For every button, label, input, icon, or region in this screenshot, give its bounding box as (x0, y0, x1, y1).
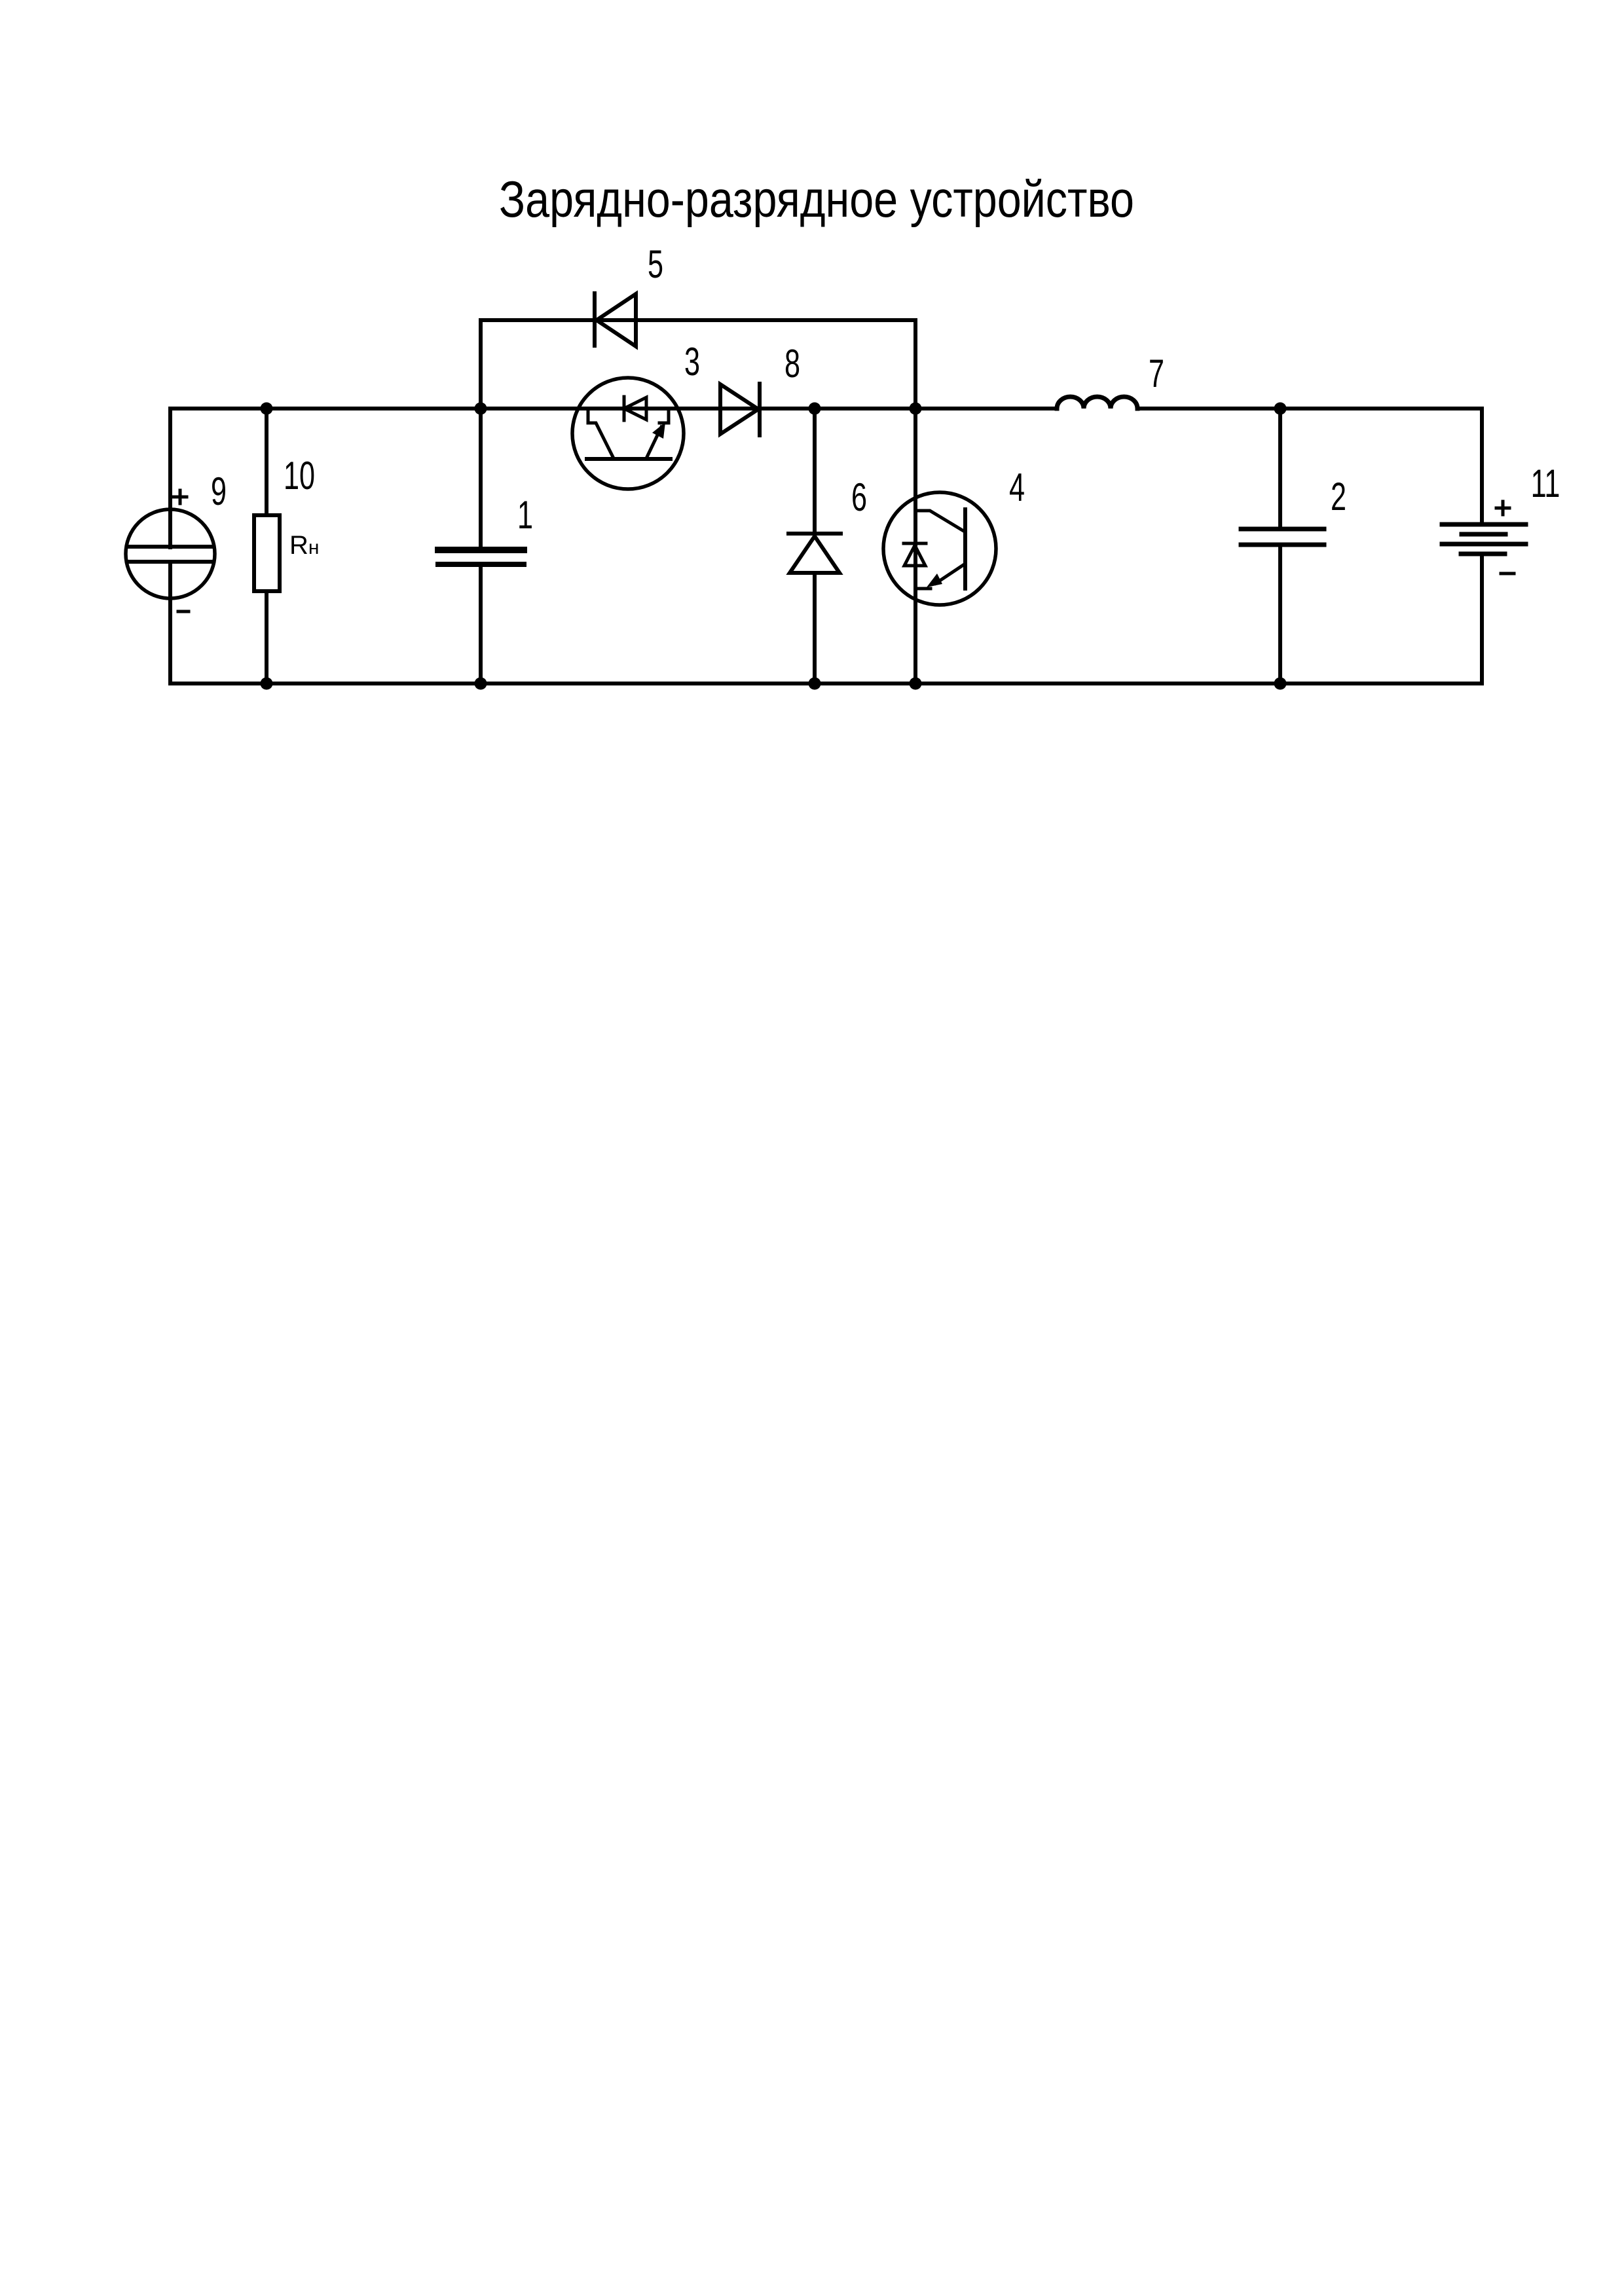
svg-text:5: 5 (648, 243, 663, 287)
svg-text:1: 1 (517, 494, 533, 538)
svg-text:10: 10 (284, 454, 315, 498)
svg-text:4: 4 (1009, 466, 1025, 510)
svg-text:Зарядно-разрядное устройство: Зарядно-разрядное устройство (499, 170, 1134, 228)
svg-text:6: 6 (851, 476, 867, 520)
svg-text:9: 9 (211, 470, 227, 514)
svg-text:2: 2 (1331, 475, 1346, 519)
svg-text:3: 3 (684, 340, 700, 384)
svg-text:8: 8 (784, 342, 800, 386)
svg-text:11: 11 (1531, 462, 1560, 506)
svg-text:7: 7 (1149, 352, 1164, 396)
